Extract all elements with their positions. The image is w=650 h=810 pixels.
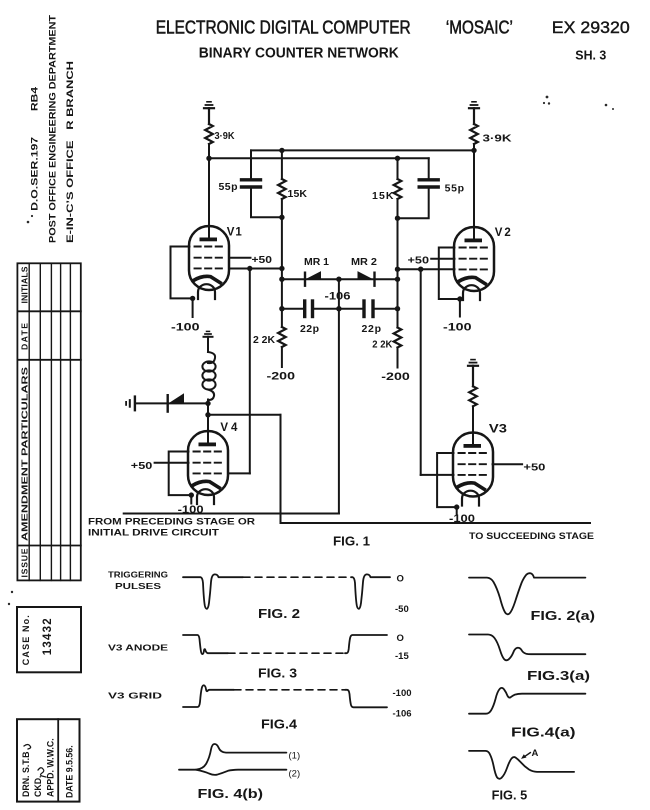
svg-text:FIG. 4(b): FIG. 4(b): [198, 787, 264, 801]
capacitor C3 22p left: [303, 301, 306, 317]
svg-text:-200: -200: [381, 371, 410, 383]
svg-text:+50: +50: [131, 460, 153, 472]
drawn/checked box: [17, 719, 80, 801]
amendment table: [17, 263, 80, 580]
svg-text:D.O.SER.197: D.O.SER.197: [30, 137, 40, 211]
wire lower cross-coupling (V1 anode to right combo): [209, 157, 429, 159]
svg-text:3·9K: 3·9K: [215, 131, 236, 142]
svg-text:55p: 55p: [445, 183, 465, 195]
svg-text:-106: -106: [325, 291, 351, 303]
svg-text:FIG.3(a): FIG.3(a): [527, 669, 590, 683]
svg-text:FIG. 1: FIG. 1: [333, 534, 370, 549]
table column boundaries (horizontal): [17, 311, 80, 545]
svg-text:V2: V2: [495, 227, 511, 239]
svg-text:INITIAL DRIVE CIRCUIT: INITIAL DRIVE CIRCUIT: [88, 528, 219, 539]
svg-text:INITIALS: INITIALS: [20, 266, 30, 303]
svg-text:FIG. 3: FIG. 3: [258, 667, 297, 681]
svg-text:CASE No.: CASE No.: [21, 615, 31, 665]
ground G1 (top left): [204, 102, 214, 124]
svg-text:-100: -100: [449, 513, 475, 525]
V3 grid wire: [421, 474, 454, 476]
ground G2 (top right): [469, 102, 479, 124]
wire R2 to node A2: [473, 144, 475, 150]
case no box: [17, 607, 81, 672]
fig4 V3 grid waveform: [183, 685, 234, 707]
resistor R4 15K right: [397, 158, 399, 179]
wire output bus (to succeeding stage): [281, 522, 591, 524]
diode MR1: [304, 273, 306, 286]
svg-text:13432: 13432: [42, 618, 54, 655]
wire R7 to V3: [472, 406, 474, 432]
svg-text:BINARY COUNTER NETWORK: BINARY COUNTER NETWORK: [199, 46, 399, 62]
svg-text:ISSUE: ISSUE: [20, 548, 30, 577]
svg-text:22p: 22p: [362, 323, 382, 335]
svg-text:FIG.4(a): FIG.4(a): [511, 726, 576, 740]
V4 cathode to -100: [190, 495, 192, 503]
junction dots: [189, 148, 477, 510]
svg-text:DATE 9.5.56.: DATE 9.5.56.: [65, 745, 75, 798]
fig3 V3 anode waveform: [183, 635, 228, 654]
svg-text:15K: 15K: [372, 190, 394, 202]
wire grid V2 junction column down to V3 grid: [420, 269, 422, 475]
V2 suppressor loop to cathode: [439, 248, 460, 300]
input terminal: [126, 397, 135, 411]
waveform text labels: [108, 571, 595, 803]
wire upper cross-coupling (V2 anode to left combo): [251, 149, 474, 151]
resistor R6 2.2K right: [394, 328, 402, 348]
svg-text:‘MOSAIC’: ‘MOSAIC’: [446, 17, 513, 38]
svg-text:55p: 55p: [219, 181, 238, 193]
svg-text:APPD. W.W.C.: APPD. W.W.C.: [46, 738, 56, 797]
tube V1: [171, 226, 282, 334]
svg-text:-106: -106: [393, 709, 412, 720]
svg-text:DRN. S.T.B: DRN. S.T.B: [21, 752, 31, 797]
table row lines (vertical): [29, 263, 70, 580]
svg-text:2 2K: 2 2K: [372, 339, 392, 351]
svg-text:-100: -100: [171, 322, 200, 334]
svg-text:V4: V4: [220, 422, 238, 434]
svg-text:-50: -50: [395, 604, 409, 615]
wire V1 anode: [208, 158, 210, 239]
wire V4 anode node branch: [208, 414, 281, 416]
wire grid V1 junction column down to V4 grid: [249, 269, 251, 474]
svg-text:+50: +50: [408, 255, 430, 267]
capacitor C1 55p left branch: [250, 150, 252, 178]
fig2a waveform: [469, 573, 585, 614]
svg-text:MR 2: MR 2: [351, 257, 377, 268]
svg-text:FIG. 2: FIG. 2: [258, 607, 300, 621]
title block top: [156, 17, 630, 63]
svg-text:PULSES: PULSES: [115, 582, 162, 591]
svg-text:FIG. 2(a): FIG. 2(a): [531, 609, 596, 623]
svg-text:E-IN-C’S OFFICE R BRANCH: E-IN-C’S OFFICE R BRANCH: [65, 61, 75, 243]
wire input bus (from preceding stage): [124, 513, 339, 515]
resistor R3 15K left: [281, 150, 283, 179]
svg-text:V3 ANODE: V3 ANODE: [108, 644, 169, 653]
fig3a waveform: [469, 635, 585, 661]
svg-text:POST OFFICE ENGINEERING DEPART: POST OFFICE ENGINEERING DEPARTMENT: [48, 15, 58, 243]
svg-text:-100: -100: [393, 688, 412, 699]
svg-text:DATE: DATE: [20, 323, 30, 350]
signature squiggles: [38, 768, 46, 777]
V3 screen wire to +50: [493, 463, 523, 465]
V4 screen wire from +50: [155, 462, 189, 464]
caption FROM PRECEDING STAGE: [88, 517, 594, 543]
wire coil to V4 anode: [207, 400, 209, 432]
capacitor C4 22p right: [362, 301, 365, 317]
ground G3 (above coil): [204, 331, 213, 352]
tube V3: [421, 424, 546, 526]
svg-text:2 2K: 2 2K: [253, 334, 275, 346]
fig4b waveform pair: [179, 744, 286, 770]
svg-text:-100: -100: [443, 322, 472, 334]
V2 screen wire to +50: [431, 258, 454, 260]
tube V2: [398, 227, 511, 334]
svg-text:AMENDMENT PARTICULARS: AMENDMENT PARTICULARS: [20, 367, 30, 541]
svg-text:FROM PRECEDING STAGE OR: FROM PRECEDING STAGE OR: [88, 517, 255, 528]
sidebar vertical office text: [30, 15, 76, 243]
svg-text:(1): (1): [289, 751, 301, 762]
capacitor C2 55p right branch: [428, 158, 430, 178]
svg-text:+50: +50: [523, 462, 545, 474]
V1 suppressor loop to cathode: [171, 247, 193, 299]
svg-text:-200: -200: [267, 371, 296, 383]
svg-text:CKD.: CKD.: [33, 775, 43, 797]
svg-text:A: A: [532, 748, 539, 759]
fig2 triggering pulses waveform: [183, 574, 243, 608]
V1 screen wire to +50: [229, 257, 251, 259]
wire MR row: [282, 278, 398, 280]
ground G4 (above V3): [468, 360, 478, 387]
V2 grid wire: [398, 268, 455, 270]
svg-text:O: O: [397, 633, 404, 644]
V3 suppressor loop to cathode: [437, 453, 457, 507]
V1 grid wire: [229, 268, 282, 270]
tube V4: [131, 422, 250, 516]
svg-text:+50: +50: [252, 254, 273, 266]
resistor R2 3.9K right: [470, 124, 478, 144]
svg-text:-15: -15: [395, 651, 409, 662]
resistor R5 2.2K left: [278, 327, 286, 347]
table header texts: [20, 266, 30, 577]
svg-text:(2): (2): [289, 769, 301, 780]
diode MR3 (trigger input): [166, 395, 168, 411]
fig5 waveform: [469, 751, 574, 779]
svg-text:TRIGGERING: TRIGGERING: [108, 571, 168, 580]
svg-text:FIG. 5: FIG. 5: [492, 789, 528, 803]
svg-text:TO SUCCEEDING STAGE: TO SUCCEEDING STAGE: [469, 531, 594, 542]
wire trigger elbow down: [280, 415, 282, 523]
svg-text:22p: 22p: [300, 323, 319, 335]
V4 grid wire: [228, 472, 250, 474]
V2 cathode to -100: [459, 299, 461, 317]
V3 cathode to -100: [456, 507, 458, 514]
svg-text:-100: -100: [178, 504, 204, 516]
wire V2 anode: [473, 150, 475, 240]
fig5 arrow A: [524, 753, 531, 758]
wire input to diode: [136, 402, 208, 404]
sidebar speck marks: [8, 96, 614, 606]
svg-text:15K: 15K: [288, 188, 308, 200]
resistor R1 3.9K left: [205, 124, 213, 144]
svg-text:MR 1: MR 1: [304, 257, 329, 268]
wire R1 to node A1: [208, 144, 210, 158]
V4 suppressor loop to cathode: [169, 452, 192, 496]
inductor L1: [202, 352, 215, 400]
waveform figures: [179, 573, 585, 779]
wire 22p row: [282, 308, 398, 310]
fig4a waveform: [469, 688, 585, 714]
svg-text:3·9K: 3·9K: [483, 133, 513, 145]
svg-text:FIG.4: FIG.4: [261, 718, 297, 732]
svg-text:EX 29320: EX 29320: [552, 18, 630, 37]
wire -106 centre column: [338, 279, 340, 513]
diode MR2: [373, 273, 375, 286]
svg-text:ELECTRONIC DIGITAL COMPUTER: ELECTRONIC DIGITAL COMPUTER: [156, 17, 411, 38]
svg-text:V1: V1: [227, 227, 243, 239]
svg-text:O: O: [397, 574, 404, 585]
svg-text:V3 GRID: V3 GRID: [108, 692, 162, 701]
V1 cathode to -100: [192, 298, 194, 317]
svg-text:RB4: RB4: [30, 86, 40, 111]
resistor R7 (V3 anode): [469, 386, 477, 406]
svg-text:SH. 3: SH. 3: [575, 48, 606, 63]
svg-text:V3: V3: [489, 424, 507, 436]
